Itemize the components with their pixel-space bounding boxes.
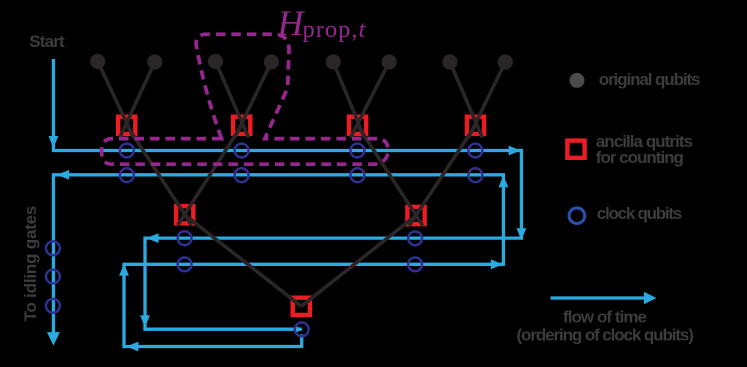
- svg-text:original qubits: original qubits: [599, 70, 700, 89]
- svg-text:Start: Start: [29, 32, 65, 51]
- svg-text:H: H: [277, 3, 306, 43]
- svg-text:flow of time: flow of time: [563, 308, 647, 327]
- svg-text:clock qubits: clock qubits: [597, 204, 682, 223]
- svg-text:prop,t: prop,t: [303, 16, 367, 43]
- svg-text:(ordering of clock qubits): (ordering of clock qubits): [517, 326, 694, 345]
- svg-text:for counting: for counting: [596, 148, 684, 167]
- svg-text:To idling gates: To idling gates: [21, 206, 40, 322]
